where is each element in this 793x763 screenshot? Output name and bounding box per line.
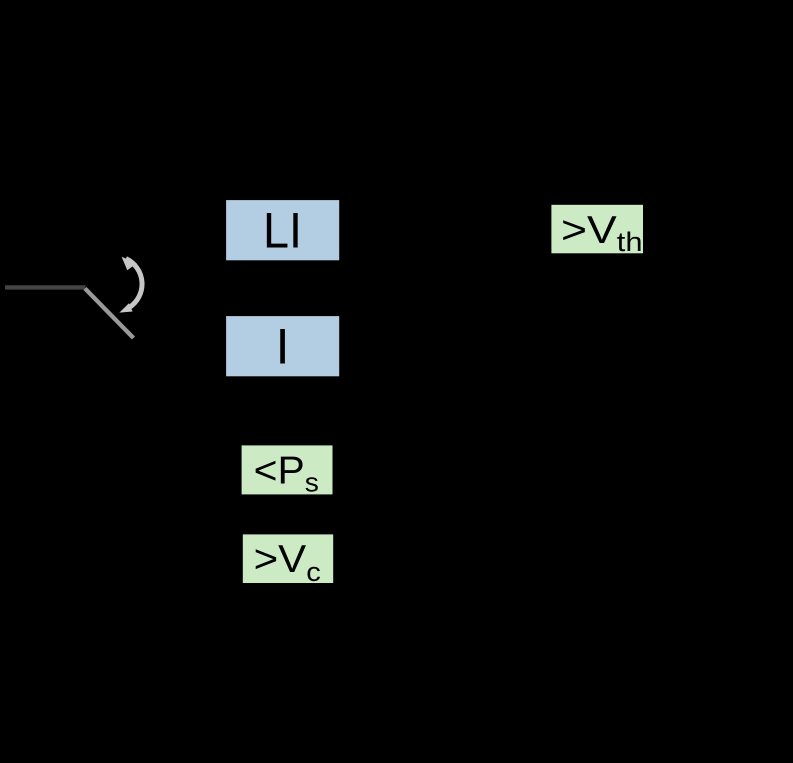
- svg-text:LI: LI: [263, 203, 302, 259]
- node &lt;Ps (power threshold label box): [242, 445, 333, 497]
- node I (current label box): [226, 316, 339, 376]
- svg-text:I: I: [276, 318, 290, 374]
- rotation arrow (lever motion): [119, 257, 142, 313]
- switch SW1 lever (moving contact): [85, 289, 134, 339]
- wire (switch fixed terminal): [5, 285, 86, 289]
- node LI (flux label box): [226, 200, 339, 260]
- node &gt;Vth (threshold voltage label box): [551, 205, 643, 257]
- node &gt;Vc (capacitor voltage label box): [243, 534, 333, 587]
